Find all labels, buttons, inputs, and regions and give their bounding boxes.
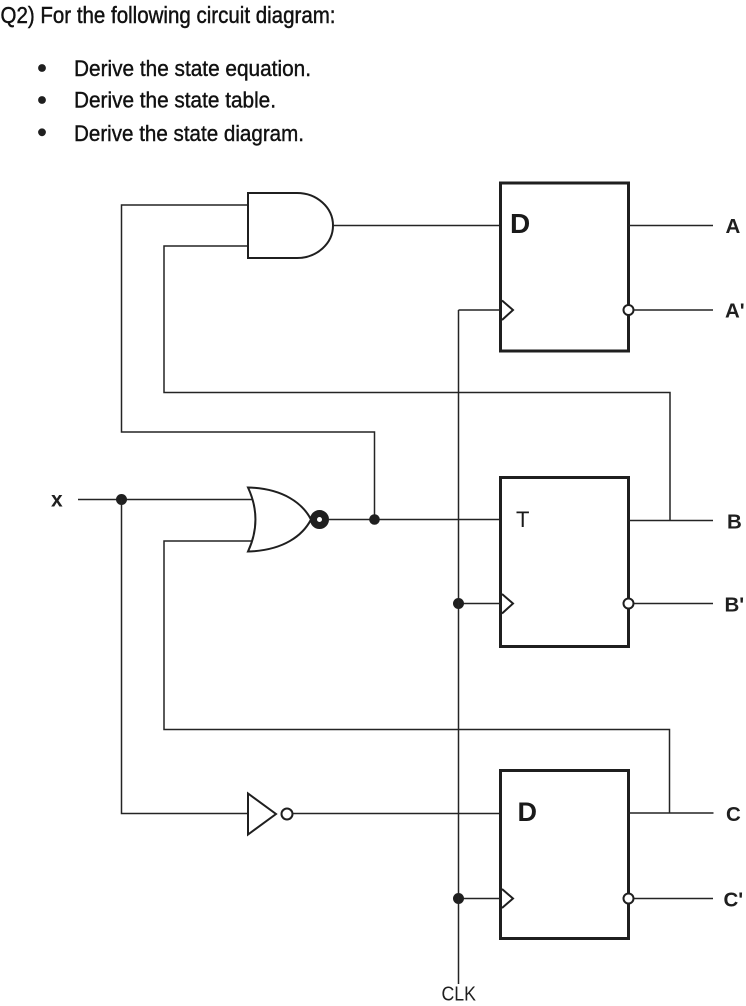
junction node on NOR output xyxy=(369,514,380,525)
svg-text:Q2) For the following circuit: Q2) For the following circuit diagram: xyxy=(1,2,336,28)
NOR output bubble (heavy) xyxy=(314,514,326,526)
bullet 3 marker xyxy=(38,128,46,136)
D flip-flop U3 (bottom) box xyxy=(501,771,629,939)
wire: CLK branch to flip-flop U3 clock xyxy=(459,898,501,900)
wire: CLK trunk vertical xyxy=(458,310,460,984)
wire: CLK branch to flip-flop U1 clock xyxy=(459,309,501,311)
inverter output bubble xyxy=(282,809,293,820)
svg-text:A: A xyxy=(726,215,741,238)
svg-text:CLK: CLK xyxy=(442,983,477,1006)
clock triangle of flip-flop U1 xyxy=(502,301,513,321)
junction node on CLK trunk at U3 xyxy=(453,893,464,904)
NOR gate (OR body) xyxy=(248,488,311,552)
bullet 2 marker xyxy=(38,96,46,104)
svg-text:A': A' xyxy=(725,300,745,323)
wire: inverter output to D input of flip-flop U3 xyxy=(292,813,501,815)
junction node on x line xyxy=(116,494,127,505)
svg-text:x: x xyxy=(51,489,63,512)
wire: x branch down to inverter input xyxy=(122,500,249,814)
wire: B output line xyxy=(629,520,714,522)
wire: C' output line xyxy=(635,898,714,900)
wire: net from C output line up-and-over to NOR bottom input xyxy=(164,541,670,813)
svg-text:D: D xyxy=(510,208,530,239)
junction node on CLK trunk at U2 xyxy=(453,598,464,609)
svg-text:T: T xyxy=(516,507,529,532)
bubble on C' output of U3 xyxy=(624,894,634,904)
wire: A' output line xyxy=(635,309,714,311)
svg-text:Derive the state diagram.: Derive the state diagram. xyxy=(74,121,304,146)
svg-text:B': B' xyxy=(725,593,745,616)
clock triangle of flip-flop U3 xyxy=(502,889,513,908)
wire: B' output line xyxy=(635,603,714,605)
D flip-flop U1 (top) box xyxy=(501,183,629,351)
clock triangle of flip-flop U2 xyxy=(502,594,513,614)
svg-text:C: C xyxy=(726,803,741,826)
svg-text:Derive the state table.: Derive the state table. xyxy=(74,88,276,113)
svg-text:C': C' xyxy=(724,888,744,911)
svg-text:B: B xyxy=(727,510,742,533)
T flip-flop U2 (middle) box xyxy=(501,478,629,647)
wire: CLK branch to flip-flop U2 clock xyxy=(459,603,501,605)
wire: NOR output to T input of flip-flop U2 xyxy=(329,519,501,521)
svg-text:Derive the state equation.: Derive the state equation. xyxy=(74,56,311,81)
bubble on B' output of U2 xyxy=(624,599,634,609)
wire: A output line xyxy=(629,225,714,227)
AND gate xyxy=(248,193,333,258)
wire: C output line xyxy=(629,812,714,814)
wire: x input line into NOR top input xyxy=(78,499,258,501)
inverter (NOT gate) triangle xyxy=(248,794,276,835)
wire: net from NOR output up-and-over to AND gate top input xyxy=(122,205,375,520)
bullet 1 marker xyxy=(38,64,46,72)
svg-text:D: D xyxy=(518,797,538,827)
wire: net from B output line up-and-over to AND gate bottom input xyxy=(164,246,670,521)
wire: AND gate output to D input of flip-flop U1 xyxy=(333,225,501,227)
bubble on A' output of U1 xyxy=(624,305,634,315)
